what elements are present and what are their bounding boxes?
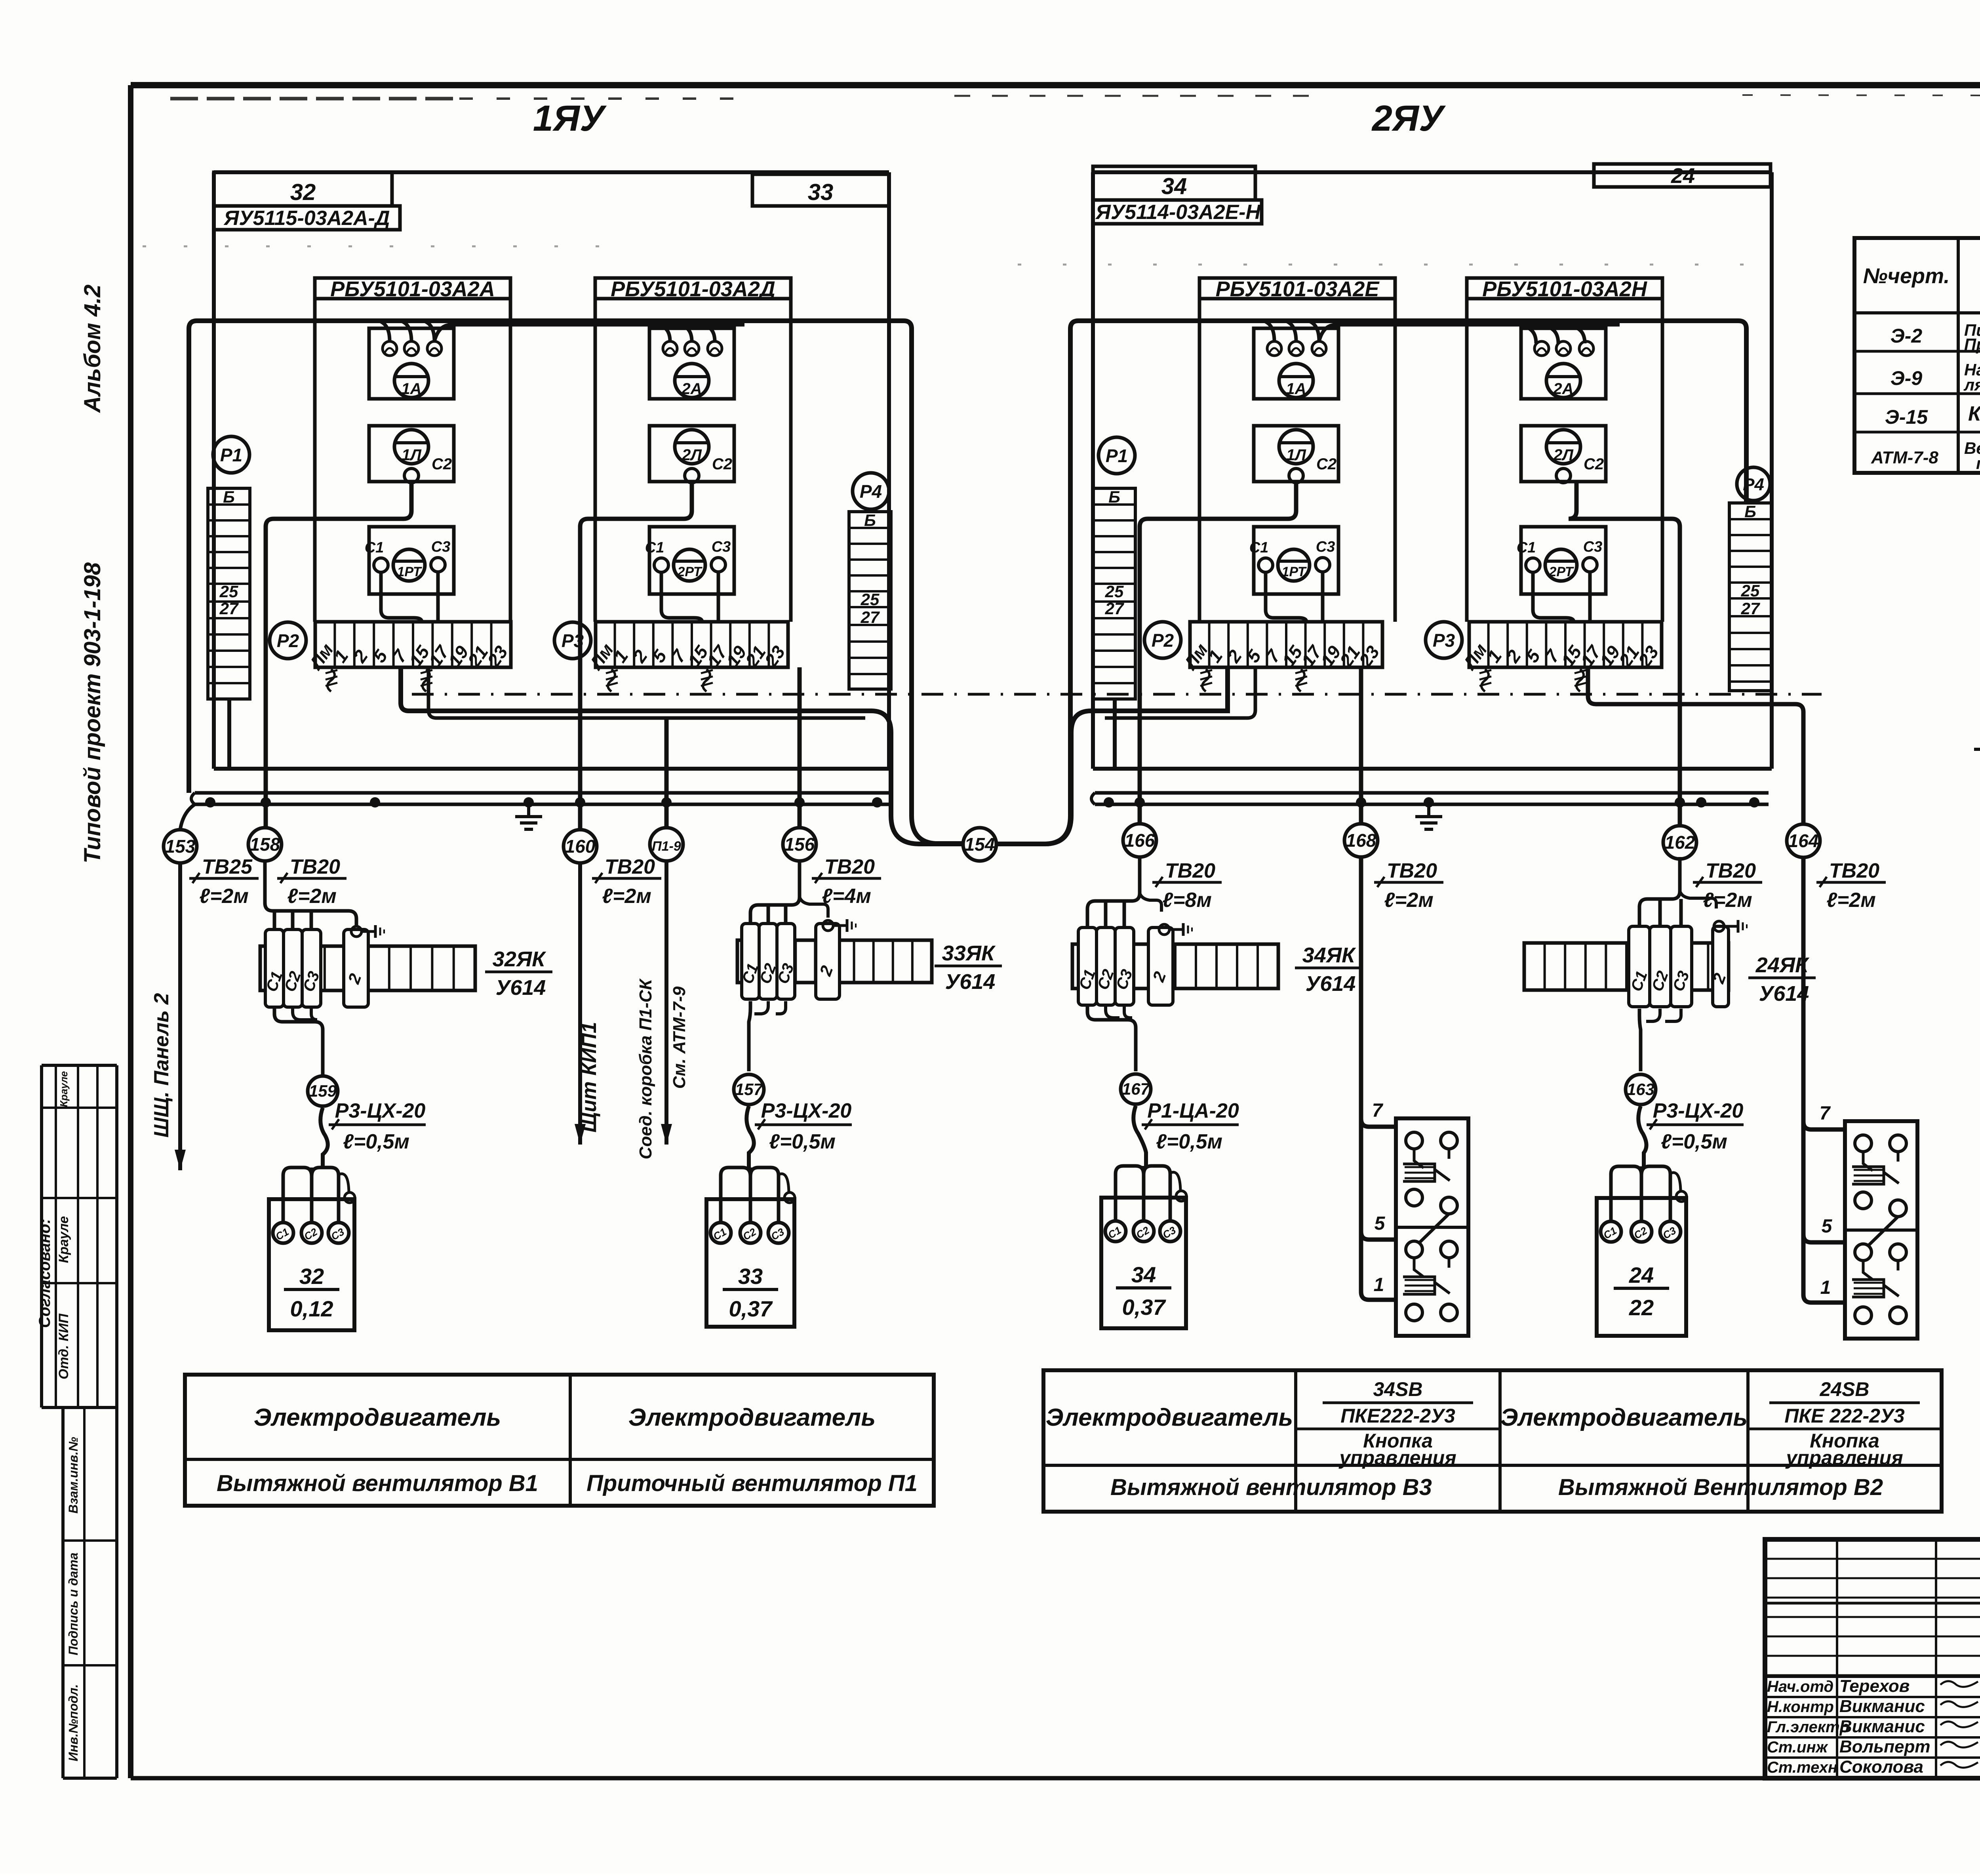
label box ЯУ5114-03А2Е-Н (1093, 200, 1262, 224)
terminal strip Р1 (2ЯУ) (1093, 488, 1135, 699)
demontage mark under strip 2ЯУ Р3 left (1479, 669, 1491, 691)
svg-text:32: 32 (290, 179, 316, 205)
svg-text:С1: С1 (1249, 539, 1269, 556)
wire С2 panel Н to cable 162 (1569, 483, 1680, 826)
svg-text:Р1: Р1 (1106, 446, 1128, 466)
svg-text:153: 153 (165, 836, 196, 857)
cable marker 163 (1626, 1074, 1656, 1105)
wire to ШЩ Панель 2 with arrow (175, 863, 186, 1170)
designator Р1 (2ЯУ) (1099, 437, 1135, 474)
svg-text:Крауле: Крауле (58, 1071, 70, 1107)
svg-text:34ЯК: 34ЯК (1302, 943, 1356, 967)
svg-text:ТВ20: ТВ20 (605, 855, 655, 878)
svg-text:1РТ: 1РТ (397, 564, 422, 579)
panel РБУ5101-03А2А outline (315, 277, 510, 622)
title block signatures text (1767, 1676, 1980, 1777)
svg-text:принципиальная управления: принципиальная управления (1976, 454, 1980, 472)
relay 1РТ with terminals С1 С3 (1249, 527, 1338, 594)
terminal strip designator Р2 (2ЯУ) (1144, 622, 1181, 658)
wire С3 to row terminals (1321, 572, 1325, 622)
cable marker 168 (1344, 824, 1378, 857)
svg-text:2Л: 2Л (1553, 446, 1574, 464)
svg-text:Э-15: Э-15 (1885, 406, 1928, 428)
svg-text:ЯУ5114-03А2Е-Н: ЯУ5114-03А2Е-Н (1095, 201, 1261, 224)
table electric motors (1ЯУ) (185, 1375, 934, 1506)
svg-text:ℓ=8м: ℓ=8м (1162, 889, 1212, 912)
svg-text:РБУ5101-03А2Д: РБУ5101-03А2Д (611, 277, 775, 301)
svg-text:159: 159 (309, 1082, 337, 1100)
svg-text:Электродвигатель: Электродвигатель (1046, 1404, 1293, 1431)
demontage mark under strip 2ЯУ Р2 mid (1295, 669, 1307, 691)
cable label ТВ25 l=2м (153) (189, 855, 259, 908)
wire link panel Е to panel Н terminals (1319, 325, 1620, 341)
svg-text:РБУ5101-03А2Е: РБУ5101-03А2Е (1216, 277, 1380, 301)
motor 24/2,2 (вентилятор В2) (1597, 1106, 1687, 1336)
terminal box 34ЯК/У614 (1072, 923, 1362, 1005)
svg-text:С2: С2 (432, 455, 452, 473)
svg-text:5: 5 (1375, 1213, 1386, 1234)
svg-text:5: 5 (1822, 1216, 1833, 1237)
panel РБУ5101-03А2Д outline (595, 277, 791, 622)
wire inter-unit bundle second conductor (428, 667, 865, 718)
svg-text:27: 27 (1105, 599, 1124, 618)
wire inter-unit bundle (1ЯУ right) (401, 667, 963, 844)
svg-text:167: 167 (1122, 1080, 1150, 1098)
wire С1 to row terminals (381, 572, 422, 622)
cable label ТВ20 l=2м (168) (1374, 859, 1443, 912)
label box ЯУ5115-03А2А-Д (214, 206, 400, 230)
svg-text:Р3: Р3 (1433, 630, 1455, 651)
svg-text:С2: С2 (1584, 455, 1604, 473)
motor 32/0,12 (вентилятор В1) (269, 1108, 355, 1330)
svg-text:Вытяжной вентилятор В1: Вытяжной вентилятор В1 (217, 1470, 538, 1496)
svg-text:С3: С3 (1316, 539, 1335, 555)
svg-text:24: 24 (1671, 164, 1695, 188)
svg-text:25: 25 (1105, 582, 1124, 601)
svg-text:У614: У614 (1306, 972, 1356, 996)
terminal strip Р3 (2ЯУ) (1458, 622, 1662, 674)
wire С1 to row terminals (661, 572, 702, 622)
svg-text:№черт.: №черт. (1863, 264, 1950, 288)
ground bus 1ЯУ (191, 793, 891, 829)
svg-text:Р3-ЦХ-20: Р3-ЦХ-20 (1653, 1099, 1744, 1122)
svg-text:Соед. коробка П1-СК: Соед. коробка П1-СК (636, 978, 655, 1160)
reference table (1854, 238, 1980, 473)
wires 32ЯК to cable 159 (274, 1007, 323, 1074)
svg-text:Кабельный журнал: Кабельный журнал (1968, 402, 1980, 425)
label box 24 (1594, 164, 1771, 188)
svg-text:Э-9: Э-9 (1891, 367, 1923, 389)
relay 1РТ with terminals С1 С3 (365, 527, 454, 594)
wires 33ЯК to cable 157 (749, 1001, 786, 1071)
demontage mark under strip 2ЯУ Р2 left (1200, 669, 1212, 691)
wire С2 panel Д to cable 160 (580, 483, 692, 830)
svg-text:С3: С3 (431, 539, 451, 555)
svg-text:2ЯУ: 2ЯУ (1371, 98, 1446, 139)
svg-text:У614: У614 (496, 976, 546, 1000)
svg-text:Крауле: Крауле (56, 1216, 71, 1263)
svg-text:ЯУ5115-03А2А-Д: ЯУ5115-03А2А-Д (223, 207, 390, 230)
demontage mark under strip 1ЯУ Р3 mid (701, 669, 713, 691)
svg-text:2А: 2А (681, 380, 702, 398)
svg-text:ℓ=0,5м: ℓ=0,5м (343, 1130, 409, 1153)
push-button station 24SB (ПКЕ222-2У3) (1845, 1121, 1917, 1339)
svg-text:Инв.№подл.: Инв.№подл. (66, 1684, 80, 1762)
svg-text:Р3-ЦХ-20: Р3-ЦХ-20 (335, 1099, 426, 1122)
svg-text:1А: 1А (1286, 380, 1306, 398)
block 2Л with terminal С2 (1521, 426, 1606, 483)
svg-text:1: 1 (1820, 1277, 1831, 1298)
svg-text:166: 166 (1125, 830, 1155, 851)
wire feeder drop hooks panel А (379, 321, 434, 341)
panel РБУ5101-03А2Н outline (1467, 277, 1662, 622)
svg-text:ТВ20: ТВ20 (1165, 859, 1215, 882)
svg-text:1А: 1А (401, 380, 421, 398)
wire feeder drop hooks panel Е (1263, 321, 1319, 341)
wire strip Р3(2ЯУ) to cable 164 (1588, 667, 1803, 824)
svg-text:Р1: Р1 (220, 445, 242, 465)
svg-text:С2: С2 (1316, 455, 1336, 473)
wire inter-unit second conductor (2ЯУ) (1105, 667, 1255, 718)
wire С3 to row terminals (1588, 572, 1592, 622)
contactor 2А (649, 328, 734, 399)
terminal strip designator Р3 (2ЯУ) (1426, 622, 1462, 658)
svg-text:24: 24 (1629, 1263, 1654, 1287)
cable marker 162 (1663, 826, 1696, 859)
svg-text:Отд. КИП: Отд. КИП (56, 1313, 71, 1379)
svg-text:Вытяжной Вентилятор В2: Вытяжной Вентилятор В2 (1558, 1474, 1883, 1500)
svg-text:ℓ=2м: ℓ=2м (199, 885, 249, 908)
svg-text:Вытяжной вентилятор В3: Вытяжной вентилятор В3 (1110, 1474, 1432, 1500)
svg-text:156: 156 (784, 834, 815, 855)
svg-text:ТВ20: ТВ20 (1387, 859, 1437, 882)
terminal box 24ЯК/У614 (1524, 920, 1816, 1007)
cable label ТВ20 l=2м (162) (1693, 859, 1762, 912)
svg-text:Б: Б (1744, 502, 1756, 521)
svg-text:ℓ=2м: ℓ=2м (1703, 889, 1752, 912)
svg-text:Электродвигатель: Электродвигатель (1500, 1404, 1748, 1431)
svg-text:Р3-ЦХ-20: Р3-ЦХ-20 (761, 1099, 852, 1122)
svg-text:С1: С1 (645, 539, 664, 556)
cable marker 167 (1121, 1074, 1151, 1104)
label box 34 (1093, 166, 1255, 200)
svg-text:Б: Б (1108, 488, 1120, 506)
demontage mark under strip 1ЯУ Р2 left (326, 669, 337, 691)
svg-text:25: 25 (219, 582, 238, 601)
svg-text:162: 162 (1665, 832, 1695, 853)
svg-text:С1: С1 (365, 539, 384, 556)
svg-text:168: 168 (1346, 830, 1376, 851)
svg-text:РБУ5101-03А2Н: РБУ5101-03А2Н (1482, 277, 1647, 301)
cable marker 157 (734, 1074, 764, 1105)
svg-text:Р2: Р2 (277, 630, 299, 651)
wire С1 to row terminals (1533, 572, 1574, 622)
terminal strip Р2 (2ЯУ) (1179, 622, 1383, 674)
demontage mark under strip 2ЯУ Р3 mid (1574, 669, 1586, 691)
svg-text:32: 32 (299, 1264, 324, 1289)
svg-text:С3: С3 (1583, 539, 1603, 555)
contactor 2А (1521, 328, 1606, 399)
demontage mark under strip 1ЯУ Р3 left (606, 669, 618, 691)
cable marker 159 (308, 1076, 338, 1106)
svg-text:154: 154 (965, 834, 995, 855)
cable marker 156 (783, 828, 816, 861)
svg-text:Подпись и дата: Подпись и дата (66, 1552, 80, 1655)
wire feeder drop hooks panel Д (659, 325, 715, 341)
cable label Р1-ЦА-20 l=0,5м (167) (1142, 1099, 1239, 1153)
svg-text:ПКЕ222-2У3: ПКЕ222-2У3 (1340, 1405, 1455, 1427)
terminal strip Р3 (1ЯУ) (585, 622, 789, 674)
wire С3 to row terminals (717, 572, 720, 622)
wire feeder drop hooks panel Н (1525, 327, 1585, 343)
wire С3 to row terminals (436, 572, 440, 622)
svg-text:33: 33 (738, 1264, 763, 1289)
svg-text:0,37: 0,37 (1122, 1295, 1167, 1320)
svg-text:Б: Б (864, 511, 876, 529)
wire three-phase feeder 1ЯУ (189, 321, 963, 844)
svg-text:2РТ: 2РТ (677, 564, 703, 579)
svg-text:Ст.инж: Ст.инж (1767, 1739, 1829, 1756)
svg-text:Н.контр: Н.контр (1767, 1698, 1834, 1716)
terminal strip designator Р2 (270, 622, 306, 659)
wire Р1 strip to enclosure bottom (1ЯУ) (227, 699, 231, 769)
terminal strip Р4 (1ЯУ) (849, 511, 891, 689)
terminal box 32ЯК/У614 (260, 925, 552, 1007)
svg-text:ℓ=0,5м: ℓ=0,5м (1661, 1130, 1727, 1153)
legend title Дополнительные условные обозначения (1974, 720, 1980, 749)
wire to Соед.коробка П1-СК with arrow (661, 861, 672, 1145)
svg-text:2РТ: 2РТ (1548, 564, 1574, 579)
wire С2 panel А to cable 158 (266, 483, 411, 828)
ground bus 2ЯУ (1091, 793, 1769, 829)
cable marker П1-9 (650, 718, 683, 861)
svg-text:Принципиальная однолинейная сх: Принципиальная однолинейная схема (1964, 335, 1980, 354)
svg-text:ТВ20: ТВ20 (824, 855, 875, 878)
svg-text:33: 33 (808, 179, 834, 205)
cable label ТВ20 l=4м (156) (812, 855, 881, 908)
svg-text:158: 158 (250, 834, 280, 855)
wire to Щит КИП1 with arrow (575, 863, 586, 1145)
block 2Л with terminal С2 (649, 426, 734, 483)
cable manifold into 32ЯК (265, 861, 356, 929)
wire С1 to row terminals (1266, 572, 1306, 622)
svg-text:7: 7 (1820, 1103, 1831, 1124)
svg-text:7: 7 (1372, 1100, 1384, 1121)
svg-text:157: 157 (735, 1080, 763, 1099)
svg-text:ляемый по месту. Схемы принцип: ляемый по месту. Схемы принципиальные (1963, 375, 1980, 394)
cable label ТВ20 l=2м (158) (277, 855, 346, 908)
svg-text:33ЯК: 33ЯК (942, 941, 996, 965)
cable label ТВ20 l=2м (164) (1816, 859, 1886, 912)
svg-text:1Л: 1Л (402, 446, 422, 464)
svg-text:П1-9: П1-9 (652, 839, 681, 854)
svg-text:У614: У614 (945, 970, 996, 994)
cable label Р3-ЦХ-20 l=0,5м (159) (329, 1099, 426, 1153)
wire Р1 strip to enclosure bottom (2ЯУ) (1113, 699, 1117, 769)
svg-text:Р4: Р4 (860, 481, 882, 502)
title block signature grid (1765, 1539, 1980, 1778)
svg-text:ℓ=2м: ℓ=2м (1384, 889, 1434, 912)
svg-text:С1: С1 (1517, 539, 1536, 556)
contactor 1А (1254, 328, 1338, 399)
svg-text:Б: Б (223, 488, 235, 506)
panel РБУ5101-03А2Е outline (1199, 277, 1395, 622)
title block frame (1765, 1539, 1980, 1778)
scan noise dashes (170, 95, 1980, 99)
svg-text:ТВ25: ТВ25 (202, 855, 253, 878)
cable marker 154 (963, 828, 996, 861)
svg-text:Альбом 4.2: Альбом 4.2 (80, 284, 105, 413)
svg-text:управления: управления (1785, 1447, 1903, 1469)
svg-text:27: 27 (1741, 599, 1760, 618)
cable label Р3-ЦХ-20 l=0,5м (163) (1647, 1099, 1744, 1153)
svg-text:1ЯУ: 1ЯУ (533, 98, 607, 139)
svg-text:1Л: 1Л (1286, 446, 1306, 464)
cable label ТВ20 l=2м (160) (592, 855, 661, 908)
svg-text:С3: С3 (712, 539, 731, 555)
cable manifold into 24ЯК (1639, 857, 1716, 926)
svg-text:160: 160 (565, 836, 596, 857)
cable marker 153 (164, 804, 197, 863)
margin approval table (Согласовано) (36, 1065, 117, 1407)
svg-text:Ст.техн: Ст.техн (1767, 1759, 1837, 1776)
svg-text:1: 1 (1374, 1274, 1384, 1295)
terminal strip Р4 (2ЯУ) (1729, 502, 1771, 691)
wires cable 164 to 24SB pins 7-5-1 (1803, 857, 1845, 1303)
label box 32 (214, 172, 392, 206)
svg-text:22: 22 (1629, 1295, 1654, 1320)
svg-text:Щит КИП1: Щит КИП1 (578, 1022, 601, 1133)
svg-text:С2: С2 (712, 455, 732, 473)
relay 2РТ with terminals С1 С3 (1517, 527, 1606, 594)
margin column Инв.№ rows (63, 1407, 117, 1778)
svg-text:27: 27 (219, 599, 239, 618)
svg-text:Р2: Р2 (1152, 630, 1174, 651)
wires cable 168 to 34SB pins 7-5-1 (1361, 857, 1396, 1300)
terminal strip designator Р3 (554, 622, 591, 659)
label box 33 (752, 174, 889, 206)
svg-text:Типовой проект 903-1-198: Типовой проект 903-1-198 (80, 562, 105, 863)
wire С2 panel Е to cable 166 (1140, 483, 1296, 824)
wire three-phase feeder 2ЯУ (1047, 321, 1746, 844)
svg-text:25: 25 (1741, 581, 1760, 600)
svg-text:25: 25 (861, 590, 880, 609)
svg-text:ПКЕ 222-2У3: ПКЕ 222-2У3 (1784, 1405, 1905, 1427)
svg-text:0,12: 0,12 (290, 1296, 333, 1321)
cable marker 166 (1123, 824, 1156, 857)
svg-text:ШЩ. Панель 2: ШЩ. Панель 2 (150, 993, 173, 1137)
svg-text:ℓ=2м: ℓ=2м (1826, 889, 1876, 912)
svg-text:Электродвигатель: Электродвигатель (628, 1404, 876, 1431)
cable label Р3-ЦХ-20 l=0,5м (157) (755, 1099, 852, 1153)
wires 24ЯК to cable 163 (1639, 1009, 1681, 1071)
svg-text:управления: управления (1338, 1447, 1456, 1469)
svg-text:Нач.отд: Нач.отд (1767, 1678, 1833, 1695)
svg-text:163: 163 (1627, 1080, 1654, 1099)
svg-text:Соколова: Соколова (1839, 1757, 1923, 1777)
enclosure 1ЯУ (214, 172, 889, 769)
svg-text:Викманис: Викманис (1839, 1717, 1925, 1736)
svg-text:Вольперт: Вольперт (1839, 1737, 1930, 1756)
svg-text:ℓ=2м: ℓ=2м (287, 885, 337, 908)
svg-text:ℓ=0,5м: ℓ=0,5м (769, 1130, 836, 1153)
svg-text:27: 27 (861, 608, 880, 627)
relay 2РТ with terminals С1 С3 (645, 527, 734, 594)
terminal box 33ЯК/У614 (737, 919, 1002, 999)
wire strip Р3(2ЯУ) to cable 168 (1359, 667, 1363, 824)
motor 34/0,37 (вентилятор В3) (1101, 1106, 1186, 1328)
cable manifold into 34ЯК (1087, 857, 1161, 928)
svg-text:См. АТМ-7-9: См. АТМ-7-9 (670, 986, 689, 1089)
svg-text:164: 164 (1788, 830, 1819, 851)
cable marker 158 (248, 828, 282, 861)
push-button station 34SB (ПКЕ222-2У3) (1396, 1118, 1468, 1336)
route dash line between units (412, 693, 1822, 696)
block 1Л with terminal С2 (1254, 426, 1338, 483)
terminal strip Р2 (1ЯУ) (305, 622, 512, 674)
wire inter-unit bundle (2ЯУ left) (996, 667, 1228, 844)
svg-text:ℓ=2м: ℓ=2м (602, 885, 651, 908)
svg-text:2А: 2А (1553, 380, 1573, 398)
svg-text:ℓ=4м: ℓ=4м (822, 885, 871, 908)
wire link panel А to panel Д terminals (434, 325, 744, 341)
svg-text:Приточный вентилятор П1: Приточный вентилятор П1 (586, 1470, 918, 1496)
svg-text:ТВ20: ТВ20 (1706, 859, 1756, 882)
svg-text:24SB: 24SB (1819, 1378, 1869, 1400)
svg-text:32ЯК: 32ЯК (493, 947, 546, 971)
designator Р4 (1ЯУ) (853, 473, 889, 509)
svg-text:Э-2: Э-2 (1891, 325, 1923, 347)
contactor 1А (369, 328, 454, 399)
svg-text:Взам.инв.№: Взам.инв.№ (66, 1437, 80, 1514)
cable marker 160 (564, 830, 597, 863)
svg-text:34: 34 (1161, 173, 1187, 199)
svg-text:1РТ: 1РТ (1281, 564, 1307, 579)
enclosure 2ЯУ (1093, 172, 1772, 769)
cable marker 164 (1787, 824, 1820, 857)
svg-text:Гл.электр: Гл.электр (1767, 1718, 1849, 1736)
terminal strip Р1 (1ЯУ) with rows Б 25 27 (208, 488, 250, 699)
svg-text:0,37: 0,37 (729, 1296, 773, 1321)
designator Р4 (2ЯУ) (1737, 467, 1770, 501)
svg-text:34SB: 34SB (1373, 1378, 1422, 1400)
svg-text:ТВ20: ТВ20 (1829, 859, 1879, 882)
table electric motors (2ЯУ) (1043, 1370, 1942, 1512)
svg-text:34: 34 (1131, 1262, 1156, 1287)
demontage mark under strip 1ЯУ Р2 mid (421, 669, 432, 691)
wire strip Р3 to cable 156 (798, 667, 802, 828)
svg-text:Электродвигатель: Электродвигатель (254, 1404, 501, 1431)
cable label ТВ20 l=8м (166) (1152, 859, 1222, 912)
svg-text:АТМ-7-8: АТМ-7-8 (1871, 448, 1938, 467)
svg-text:Р1-ЦА-20: Р1-ЦА-20 (1147, 1099, 1239, 1122)
svg-text:Согласовано:: Согласовано: (36, 1219, 53, 1328)
designator Р1 (1ЯУ) (213, 436, 249, 473)
svg-text:ℓ=0,5м: ℓ=0,5м (1156, 1130, 1222, 1153)
svg-text:Викманис: Викманис (1839, 1697, 1925, 1716)
svg-text:Терехов: Терехов (1839, 1676, 1910, 1696)
svg-text:2Л: 2Л (682, 446, 702, 464)
block 1Л with terminal С2 (369, 426, 454, 483)
svg-text:ТВ20: ТВ20 (290, 855, 340, 878)
wires 34ЯК to cable 167 (1087, 1005, 1136, 1071)
motor 33/0,37 (вентилятор П1) (706, 1106, 795, 1327)
svg-text:РБУ5101-03А2А: РБУ5101-03А2А (330, 277, 495, 301)
cable manifold into 33ЯК (750, 861, 828, 924)
